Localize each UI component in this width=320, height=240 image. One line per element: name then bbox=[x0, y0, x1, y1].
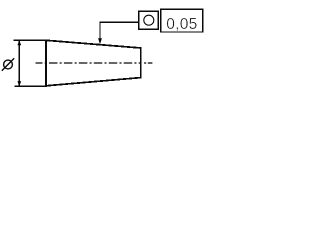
dimension arrow bottom bbox=[17, 81, 21, 86]
svg-text:0,05: 0,05 bbox=[166, 16, 197, 33]
diameter symbol bbox=[2, 58, 14, 71]
dimension arrow top bbox=[17, 40, 21, 45]
extension line bottom bbox=[15, 85, 47, 87]
dimension line bbox=[18, 41, 20, 86]
feature control frame circularity cell bbox=[139, 11, 159, 29]
centerline bbox=[36, 62, 153, 64]
leader line bbox=[100, 22, 139, 39]
circularity symbol bbox=[144, 15, 154, 25]
leader arrow bbox=[98, 38, 102, 44]
extension line top bbox=[14, 39, 47, 41]
cone outline bbox=[46, 40, 141, 86]
tolerance value cell bbox=[161, 9, 203, 32]
